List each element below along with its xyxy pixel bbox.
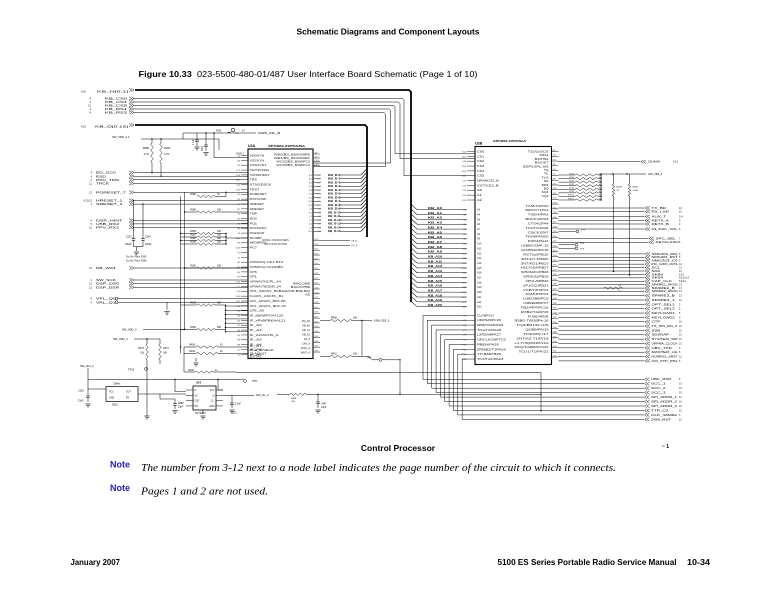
capacitor C204 100pF	[141, 203, 152, 246]
svg-text:10K: 10K	[353, 317, 358, 320]
net SK80	[559, 272, 685, 276]
svg-text:CSK3/1PA7: CSK3/1PA7	[528, 231, 550, 234]
svg-text:KB_A16: KB_A16	[428, 284, 443, 288]
svg-text:TH.BMP.B29: TH.BMP.B29	[477, 353, 502, 356]
svg-text:KB_D-3: KB_D-3	[328, 184, 341, 188]
svg-text:KB_D-5: KB_D-5	[328, 192, 341, 196]
svg-text:PCESCR: PCESCR	[250, 232, 265, 235]
net SW_VDD_3 label A	[122, 328, 185, 332]
svg-text:SDSNAP: SDSNAP	[652, 333, 670, 337]
svg-text:BACC/7B9: BACC/7B9	[291, 286, 311, 289]
svg-text:UBC_RXD: UBC_RXD	[651, 377, 671, 381]
net U5B_RX2	[91, 222, 248, 226]
svg-text:KB_D[0:15]: KB_D[0:15]	[95, 124, 128, 128]
svg-text:IF_xBAWPOATL20: IF_xBAWPOATL20	[250, 314, 285, 317]
svg-text:M1Q/T/ABP/IP/G20: M1Q/T/ABP/IP/G20	[515, 346, 550, 349]
net FPV_RX2	[89, 226, 248, 230]
test point TP1	[559, 230, 586, 233]
svg-text:SCC_1: SCC_1	[651, 382, 666, 386]
svg-text:SPI_ADDR_2: SPI_ADDR_2	[651, 399, 678, 403]
net SPC_SEL	[559, 236, 682, 240]
svg-text:A22: A22	[477, 301, 482, 304]
net SPI_ADDR_1	[645, 395, 683, 399]
svg-text:AUX_T: AUX_T	[652, 214, 667, 218]
svg-text:CS7/CS2_B: CS7/CS2_B	[477, 184, 499, 187]
net SDA	[559, 269, 683, 273]
svg-text:KB_WAT: KB_WAT	[96, 266, 116, 270]
svg-text:RBEH/PA29: RBEH/PA29	[477, 343, 500, 346]
svg-text:26M_RST: 26M_RST	[651, 417, 672, 421]
resistor R384 10K	[184, 209, 248, 214]
svg-text:SRESET_1: SRESET_1	[96, 202, 123, 206]
resistor R2610 10K	[559, 195, 603, 198]
resistor R404 1x	[184, 347, 236, 373]
svg-text:PR: PR	[195, 405, 199, 408]
svg-text:MBD/CR2PA25: MBD/CR2PA25	[477, 324, 504, 327]
svg-text:IF_A3: IF_A3	[250, 339, 263, 342]
net NORRIS2_ARST	[559, 354, 683, 358]
svg-text:Note: Note	[110, 483, 130, 493]
svg-text:EQ_B: EQ_B	[352, 245, 358, 247]
svg-text:R410: R410	[331, 353, 337, 356]
svg-text:R281: R281	[164, 146, 171, 150]
net AUX_T	[559, 214, 683, 218]
svg-text:KB_A0: KB_A0	[428, 206, 443, 210]
svg-text:KB_D-7: KB_D-7	[328, 199, 341, 203]
wire U2A right aux nets	[320, 239, 358, 247]
wires into U10	[160, 388, 223, 399]
net SPARE3_B	[559, 294, 683, 298]
U2B inside right labels	[515, 151, 550, 354]
svg-text:2PCL/6PB30: 2PCL/6PB30	[526, 280, 550, 283]
U2A bottom-left inside labels	[250, 345, 275, 358]
svg-text:KB_A12: KB_A12	[428, 264, 443, 268]
svg-text:KB_A18: KB_A18	[428, 293, 443, 297]
svg-text:PQ1: PQ1	[250, 222, 258, 225]
svg-text:2NT/A2.T1/P/16: 2NT/A2.T1/P/16	[516, 337, 549, 340]
svg-text:33pF: 33pF	[321, 407, 327, 409]
svg-text:URCLK/26F7C5: URCLK/26F7C5	[477, 339, 507, 342]
net PORESET_7	[89, 190, 248, 194]
svg-text:KB_A11: KB_A11	[428, 259, 443, 263]
svg-text:A23: A23	[477, 306, 482, 309]
U2B left pin comb top	[462, 150, 499, 202]
net NMG303_C0	[559, 259, 682, 263]
U2A top-right inside labels	[274, 153, 311, 167]
svg-text:R268: R268	[569, 188, 575, 190]
svg-text:U10: U10	[196, 380, 202, 384]
svg-text:Q: Q	[213, 394, 215, 397]
svg-text:RXD4/PA11: RXD4/PA11	[528, 240, 550, 243]
capacitor C209 0.1uF	[193, 133, 200, 150]
U2B KB_A address pin comb with bus ramp	[411, 204, 482, 308]
svg-text:SPARE3_B: SPARE3_B	[652, 294, 676, 298]
resistor R388 10K	[181, 237, 227, 242]
svg-text:33pF: 33pF	[202, 145, 204, 151]
svg-text:50K: 50K	[217, 302, 222, 305]
svg-text:NMG303_RST: NMG303_RST	[652, 255, 679, 259]
svg-text:Control Processor: Control Processor	[361, 443, 436, 453]
wire loop U2B pin 4	[436, 330, 644, 393]
capacitor C487 33pF	[315, 394, 327, 413]
svg-text:A13: A13	[477, 257, 482, 260]
svg-text:A18: A18	[477, 281, 482, 284]
svg-text:A17: A17	[477, 277, 482, 280]
svg-text:RSTCONF: RSTCONF	[250, 198, 267, 201]
svg-text:A21: A21	[477, 296, 482, 299]
ground crystal	[193, 358, 198, 366]
svg-text:4,10: 4,10	[81, 89, 87, 93]
svg-text:UPWA/TBCER_24: UPWA/TBCER_24	[250, 285, 282, 288]
svg-text:TIN4/IPA0D: TIN4/IPA0D	[526, 236, 549, 239]
net OPT_SEL1	[559, 302, 682, 306]
svg-text:SSB: SSB	[652, 328, 661, 332]
svg-text:PSC_AUDIO_MUTE: PSC_AUDIO_MUTE	[652, 262, 678, 266]
svg-text:Do Not Place R398: Do Not Place R398	[126, 260, 147, 263]
net TX_SPI_EN_A	[559, 324, 683, 328]
svg-text:CPL_ADCPL_BDC-33: CPL_ADCPL_BDC-33	[250, 305, 287, 308]
svg-text:TCU1/T1/PA/21: TCU1/T1/PA/21	[519, 351, 550, 354]
resistor R381 10K	[184, 265, 248, 270]
wire to U2B	[400, 158, 475, 160]
svg-text:S/B 11 ROM NOTICE: S/B 11 ROM NOTICE	[264, 243, 287, 246]
svg-text:0.1uF: 0.1uF	[235, 404, 241, 406]
capacitor C888 33pF	[172, 399, 184, 414]
svg-text:FB2/4FP/PC10: FB2/4FP/PC10	[521, 306, 550, 309]
svg-text:32kHz: 32kHz	[113, 382, 121, 386]
svg-text:U3E/2B9/PC6: U3E/2B9/PC6	[523, 298, 549, 301]
svg-text:UPWA/TNCPL_A4: UPWA/TNCPL_A4	[250, 281, 282, 284]
svg-text:BRCK/2/PA3: BRCK/2/PA3	[526, 218, 550, 221]
svg-text:CS0: CS0	[477, 150, 485, 153]
svg-text:R403: R403	[189, 343, 195, 346]
svg-text:D: D	[195, 389, 197, 392]
svg-text:KB_A8: KB_A8	[428, 245, 443, 249]
svg-text:A19: A19	[477, 286, 482, 289]
svg-text:KB_D-1: KB_D-1	[328, 177, 341, 181]
svg-text:KB_A3: KB_A3	[428, 221, 443, 225]
svg-text:SDA: SDA	[652, 269, 661, 273]
svg-text:H2C/GDA/PB27: H2C/GDA/PB27	[521, 267, 550, 270]
svg-text:CLK_16M92: CLK_16M92	[651, 413, 678, 417]
svg-text:SK80: SK80	[652, 272, 665, 276]
svg-text:KB_CS0: KB_CS0	[105, 97, 128, 101]
svg-text:BACC/B9: BACC/B9	[293, 283, 311, 286]
svg-text:GND: GND	[209, 405, 215, 408]
svg-text:WE1/BS_B1/IOWR1: WE1/BS_B1/IOWR1	[274, 157, 311, 160]
svg-text:10K: 10K	[353, 353, 358, 356]
U2A KB_D pin comb with bus ramp	[309, 169, 367, 234]
svg-text:UFRS29PC29: UFRS29PC29	[477, 319, 502, 322]
svg-text:~ 1: ~ 1	[662, 444, 669, 450]
svg-text:R402: R402	[189, 350, 195, 353]
net SPARE2_MOSI	[559, 289, 683, 293]
svg-text:TX_BD: TX_BD	[652, 206, 667, 210]
svg-text:FUSE/4FDR: FUSE/4FDR	[528, 315, 549, 318]
svg-text:GW_VB0_3: GW_VB0_3	[648, 172, 663, 176]
net GW_/2L_3	[223, 393, 290, 397]
net NMG303_IRQ	[559, 252, 682, 256]
resistor Q6 12 series	[604, 285, 622, 293]
capacitor C210 33pF	[202, 133, 209, 156]
svg-text:TMS1: TMS1	[539, 154, 549, 157]
svg-text:KB_D-15: KB_D-15	[328, 229, 341, 233]
U2B bottom-left pin comb with loop nest	[462, 314, 506, 361]
svg-text:KB_A2: KB_A2	[302, 334, 310, 337]
svg-text:TP9: TP9	[252, 379, 257, 383]
svg-text:T32/2xSCS: T32/2xSCS	[528, 151, 549, 154]
svg-text:TQ4/B31/IF.G/5: TQ4/B31/IF.G/5	[516, 324, 549, 327]
U2A right pin comb lower	[313, 239, 320, 353]
svg-text:KEYLOAD1: KEYLOAD1	[652, 311, 676, 315]
svg-text:R2611: R2611	[568, 198, 575, 200]
svg-text:CAP_CLK: CAP_CLK	[652, 279, 673, 283]
wire feedback drop	[540, 373, 541, 412]
net SSB	[559, 328, 683, 332]
svg-text:TX_SPI_EN_A: TX_SPI_EN_A	[652, 324, 678, 328]
svg-text:CPM/CQ-CK2/DBO: CPM/CQ-CK2/DBO	[250, 266, 284, 269]
svg-text:D201: D201	[112, 404, 118, 407]
svg-text:4,10: 4,10	[673, 161, 678, 164]
resistor R281 4.7K	[160, 143, 163, 163]
svg-text:KB_D-12: KB_D-12	[328, 218, 341, 222]
svg-text:PC7: PC7	[250, 247, 258, 250]
svg-text:IF_A1: IF_A1	[250, 329, 263, 332]
svg-text:TRST: TRST	[250, 188, 260, 191]
svg-text:KB_A1: KB_A1	[302, 329, 310, 332]
svg-text:Pages 1 and 2 are not used.: Pages 1 and 2 are not used.	[140, 486, 268, 498]
net CB_RelW	[559, 160, 679, 164]
svg-text:Do Not Place R399: Do Not Place R399	[126, 256, 147, 259]
svg-text:WCS2/BS_BSWFC2: WCS2/BS_BSWFC2	[276, 161, 310, 164]
svg-text:RST2u/IPB10: RST2u/IPB10	[523, 253, 549, 256]
net SW_SCK	[91, 278, 248, 282]
test point TP2	[559, 243, 585, 246]
svg-text:CxCPL_ASCPL_B1: CxCPL_ASCPL_B1	[250, 295, 285, 298]
svg-text:L1.T/3Q/M1P/x10: L1.T/3Q/M1P/x10	[515, 342, 550, 345]
net TTP_C2	[645, 408, 683, 412]
svg-text:100pF: 100pF	[145, 244, 152, 246]
svg-text:KB_A15: KB_A15	[428, 279, 443, 283]
svg-text:CTS4/1PA4: CTS4/1PA4	[528, 222, 550, 225]
wire to U2A VSS pin	[214, 133, 248, 158]
svg-text:TOUT22/PA23: TOUT22/PA23	[477, 358, 504, 361]
resistor R267 10K	[559, 184, 603, 187]
svg-text:KB_A20: KB_A20	[428, 303, 443, 307]
net DSP_DS0	[89, 282, 248, 286]
svg-text:PA_B: PA_B	[352, 239, 358, 242]
svg-text:DSP_DSR: DSP_DSR	[96, 285, 119, 289]
junction column right of resistor bank	[225, 233, 248, 333]
net SCC_1	[645, 382, 683, 386]
svg-text:R286: R286	[633, 187, 639, 189]
svg-text:TXE/4/PA2: TXE/4/PA2	[528, 214, 550, 217]
U2A left pin comb	[236, 154, 287, 356]
net DSP_DSR	[89, 285, 248, 289]
svg-text:KB_A2: KB_A2	[428, 216, 443, 220]
svg-text:33pF: 33pF	[178, 406, 184, 408]
svg-text:BRCK/Y1PA1: BRCK/Y1PA1	[526, 209, 550, 212]
svg-text:VSSSYN: VSSSYN	[250, 159, 265, 162]
svg-text:U3B/EMB/PC7: U3B/EMB/PC7	[523, 302, 549, 305]
svg-text:KB_D-6: KB_D-6	[328, 195, 341, 199]
net UBC_RXD	[645, 377, 682, 381]
svg-text:KB_D-11: KB_D-11	[328, 214, 341, 218]
svg-text:U2B: U2B	[475, 142, 483, 146]
svg-text:SYSTEM_SM: SYSTEM_SM	[652, 337, 678, 341]
svg-text:RETX_B: RETX_B	[652, 222, 670, 226]
svg-text:KB_CS1: KB_CS1	[105, 100, 128, 104]
svg-text:RX_LSD: RX_LSD	[652, 209, 670, 213]
svg-text:R280: R280	[143, 146, 150, 150]
ground caps common	[134, 247, 144, 255]
svg-text:SW_VDD_3: SW_VDD_3	[122, 328, 137, 332]
net VAL_Q1	[91, 300, 248, 304]
net CAP_CLK	[559, 279, 687, 283]
op IC U2A XPC823 (left half)	[248, 144, 313, 359]
wire VAL GND drop	[164, 302, 169, 314]
svg-text:CS1: CS1	[477, 155, 485, 158]
svg-text:TEXP/22D: TEXP/22D	[250, 169, 270, 172]
svg-text:VCC: VCC	[209, 389, 214, 392]
svg-text:ChA2_A: ChA2_A	[301, 347, 311, 350]
svg-text:F3_DAC_VOL: F3_DAC_VOL	[652, 227, 679, 231]
svg-text:R5BD-T/B2BPk-16: R5BD-T/B2BPk-16	[515, 320, 550, 323]
svg-text:KB_D-2: KB_D-2	[328, 180, 341, 184]
U2A right pin comb top	[313, 152, 320, 166]
wire loop U2B pin 7	[449, 345, 644, 407]
svg-text:5,H: 5,H	[679, 215, 683, 218]
svg-text:WAIT_A: WAIT_A	[301, 352, 311, 355]
U2A bottom-right inside labels	[279, 283, 311, 355]
svg-text:R473: R473	[138, 347, 144, 350]
svg-text:XPC823-ZZPG6xA: XPC823-ZZPG6xA	[493, 139, 527, 143]
resistor R269 10K	[559, 191, 603, 194]
net MASTER_UA	[559, 350, 682, 354]
resistor R286 2.94K	[628, 174, 639, 275]
junction R280 bottom	[151, 172, 152, 173]
svg-text:10K: 10K	[217, 209, 222, 212]
svg-text:10K: 10K	[217, 265, 222, 268]
svg-text:NORRIS2_ARST: NORRIS2_ARST	[652, 354, 679, 358]
wire to U2B	[395, 153, 475, 155]
resistor R264 10K	[559, 173, 603, 176]
resistor R389 10K	[181, 241, 227, 246]
U2A inside notes text	[262, 239, 289, 246]
svg-text:BS/P1GPL_MS: BS/P1GPL_MS	[523, 165, 549, 168]
U2B right pin comb	[552, 150, 559, 358]
wire R498 row join	[540, 417, 542, 419]
resistor R266 10K	[559, 180, 603, 183]
svg-text:KB_A19: KB_A19	[428, 298, 443, 302]
svg-text:EXTAL: EXTAL	[250, 355, 263, 358]
svg-text:C888: C888	[178, 403, 184, 405]
svg-text:A12: A12	[477, 252, 482, 255]
svg-text:STS/SDSCK: STS/SDSCK	[250, 184, 272, 187]
svg-text:R498: R498	[291, 398, 297, 400]
resistor R402 1k	[184, 350, 248, 355]
svg-text:SW_UD1_5: SW_UD1_5	[80, 364, 94, 368]
resistor R2611 10K	[559, 198, 603, 201]
svg-text:F201: F201	[216, 130, 222, 133]
svg-text:BAD/CR.B9F.BQ: BAD/CR.B9F.BQ	[279, 290, 310, 293]
svg-text:IM: IM	[544, 180, 549, 183]
resistor R408 10K	[320, 317, 390, 357]
svg-text:CPL_A0: CPL_A0	[250, 310, 265, 313]
resistor R382 1K	[190, 192, 226, 198]
svg-text:4,10: 4,10	[81, 124, 87, 128]
wire to U2A	[313, 162, 391, 164]
wire loop U2B pin 8	[453, 349, 644, 410]
svg-text:TCUT1/1PA5: TCUT1/1PA5	[526, 227, 550, 230]
svg-text:VAL_Q1: VAL_Q1	[96, 300, 117, 304]
svg-text:DQ_A0: DQ_A0	[302, 320, 311, 323]
svg-text:ChA_A: ChA_A	[302, 343, 310, 346]
net VFL_Q0	[91, 297, 248, 301]
op IC U2B XPC823 (right half)	[475, 139, 552, 365]
resistor R280 4.7K	[151, 143, 154, 163]
svg-text:L2R2M8PA27: L2R2M8PA27	[477, 334, 502, 337]
net RETX_B	[559, 222, 682, 226]
svg-text:KB_RS1: KB_RS1	[105, 107, 128, 111]
svg-text:KB_A9: KB_A9	[428, 250, 443, 254]
resistor R380 50K	[181, 326, 227, 331]
svg-text:CS5: CS5	[477, 175, 485, 178]
svg-text:UBC_TXD: UBC_TXD	[652, 346, 673, 350]
svg-text:CS3: CS3	[477, 165, 485, 168]
fuse F201	[216, 128, 245, 133]
svg-text:8G: 8G	[237, 272, 240, 274]
svg-text:R382: R382	[190, 193, 196, 196]
svg-text:KB_A7: KB_A7	[428, 240, 443, 244]
svg-text:A20: A20	[477, 291, 482, 294]
net RX_LSD	[559, 209, 683, 213]
svg-text:RETX_A: RETX_A	[652, 218, 670, 222]
wire L4 rail	[183, 132, 256, 139]
svg-text:NOTES: AND MASTERS: NOTES: AND MASTERS	[262, 239, 289, 242]
svg-text:PCLKRSV: PCLKRSV	[250, 227, 267, 230]
svg-text:SPARE1_MOSI: SPARE1_MOSI	[652, 283, 678, 287]
svg-text:CLKBRCH: CLKBRCH	[477, 314, 494, 317]
svg-text:4.7K: 4.7K	[164, 152, 170, 156]
svg-text:SPC_SEL: SPC_SEL	[656, 236, 677, 240]
svg-text:CS4: CS4	[477, 170, 485, 173]
net GW_VB0_3 rail	[600, 172, 663, 176]
resistor R386 10K	[181, 230, 227, 235]
svg-text:SW_VDD_3: SW_VDD_3	[113, 337, 128, 341]
svg-text:PORESET: PORESET	[250, 193, 267, 196]
svg-text:SCC_2: SCC_2	[651, 386, 666, 390]
net KB_WAT	[89, 266, 248, 270]
test point TP10	[128, 367, 150, 419]
svg-text:R266: R266	[569, 180, 575, 182]
net PPC_TMS	[91, 178, 248, 182]
net NMG303_RST	[559, 255, 682, 259]
svg-text:Note: Note	[110, 460, 130, 470]
svg-text:BS/HS3: BS/HS3	[535, 158, 550, 161]
net TRCK	[89, 182, 248, 186]
net DSP_HINT	[91, 218, 248, 222]
svg-text:OPT_SEL2: OPT_SEL2	[652, 307, 676, 311]
svg-text:BM4: BM4	[542, 184, 550, 187]
svg-text:SPR/M2C/PB28: SPR/M2C/PB28	[521, 271, 550, 274]
svg-text:BS/UST: BS/UST	[535, 162, 550, 165]
junction R281 bottom	[160, 176, 161, 177]
resistor R385 50K	[181, 302, 227, 307]
svg-text:SPI_ADDR_3: SPI_ADDR_3	[651, 404, 678, 408]
svg-text:4,10,12: 4,10,12	[83, 199, 92, 203]
svg-text:C223: C223	[126, 236, 132, 238]
